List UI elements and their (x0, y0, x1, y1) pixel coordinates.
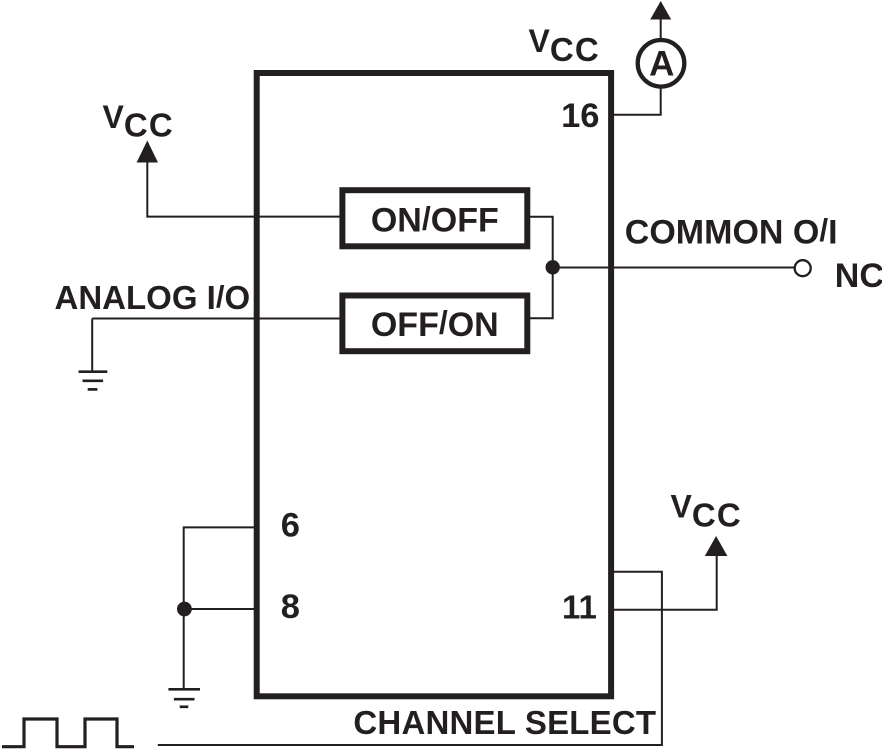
power Vcc arrow (right) (705, 536, 728, 556)
wire pin 11 to Vcc arrow (611, 554, 717, 610)
svg-text:OFF/ON: OFF/ON (371, 305, 499, 344)
wire ON/OFF output to common node (529, 217, 553, 319)
svg-text:11: 11 (562, 589, 597, 626)
svg-text:COMMON O/I: COMMON O/I (625, 212, 838, 251)
switch box ON/OFF (342, 190, 527, 246)
svg-text:ANALOG I/O: ANALOG I/O (55, 279, 251, 316)
wire pin 8 (184, 608, 256, 610)
junction pins 6-8 (177, 602, 192, 617)
wire pin 16 to ammeter (611, 86, 661, 115)
svg-text:ON/OFF: ON/OFF (371, 200, 499, 239)
wire pin 6 (184, 527, 256, 689)
switch box OFF/ON (342, 296, 527, 352)
power Vcc arrow (left) (137, 141, 158, 163)
terminal NC (open circle) (795, 260, 811, 276)
svg-text:16: 16 (561, 97, 599, 135)
svg-text:CHANNEL SELECT: CHANNEL SELECT (353, 704, 656, 741)
wire common node to NC terminal (553, 267, 794, 269)
wire ANALOG I/O to OFF/ON switch (92, 318, 341, 320)
svg-text:8: 8 (281, 588, 300, 626)
wire analog to ground (91, 319, 93, 372)
pulse source (square wave) (2, 719, 134, 747)
ammeter A1 (638, 40, 685, 87)
wire channel select (158, 572, 662, 745)
svg-text:6: 6 (281, 507, 300, 545)
junction node (common) (546, 260, 560, 274)
ground (pins 6 and 8) (168, 689, 200, 707)
svg-text:A: A (649, 45, 674, 84)
wire Vcc(left) to ON/OFF switch (147, 161, 341, 217)
wire ammeter to Vcc arrow (660, 17, 662, 40)
ground (analog input) (79, 372, 108, 390)
svg-text:NC: NC (835, 257, 882, 295)
power Vcc arrow (above ammeter) (650, 1, 671, 20)
IC U1 outline (257, 73, 611, 696)
